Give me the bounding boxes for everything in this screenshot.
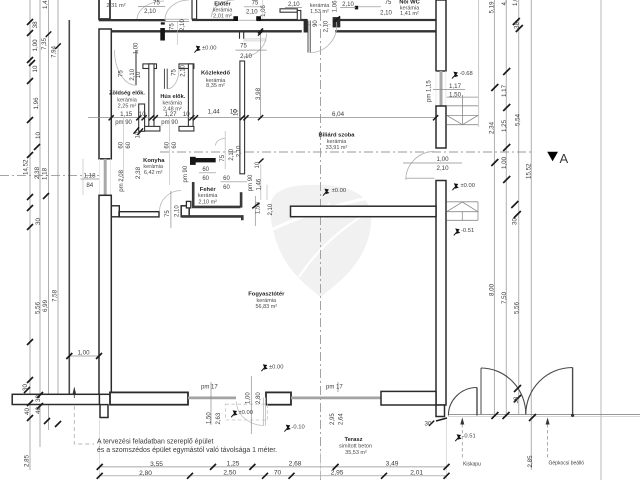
fehér room south wall	[192, 206, 240, 209]
wing south wall under fehér	[182, 216, 242, 220]
door arc NW into neighbour gap	[165, 0, 189, 20]
zöldség door leaf	[135, 50, 137, 85]
flag ±0.00 biliard	[323, 189, 329, 196]
door arc corridor east	[244, 34, 267, 57]
main door threshold dashes	[308, 24, 332, 26]
room label konyha	[143, 158, 165, 176]
svg-text:1,50: 1,50	[207, 412, 213, 424]
east wall segment 2	[436, 106, 446, 148]
svg-text:3,55: 3,55	[150, 461, 163, 468]
south wall band east	[381, 391, 436, 405]
gate right arc	[526, 368, 573, 415]
svg-text:6,42 m²: 6,42 m²	[144, 170, 163, 176]
svg-text:pm 1,15: pm 1,15	[426, 80, 432, 102]
main door left jamb	[304, 19, 308, 33]
svg-text:2,50: 2,50	[223, 470, 236, 477]
svg-text:1,06: 1,06	[333, 0, 339, 12]
east window dim lines	[433, 89, 465, 91]
svg-text:-0.10: -0.10	[292, 424, 305, 430]
svg-text:10: 10	[183, 111, 190, 118]
svg-text:60: 60	[126, 141, 132, 148]
room label shower	[310, 3, 331, 15]
chain2 ticks	[97, 473, 450, 479]
south window 2	[291, 396, 381, 399]
svg-text:-0.51: -0.51	[461, 228, 474, 234]
flag ±0.00 above south wall	[261, 364, 267, 371]
passage ext line 1	[260, 164, 262, 200]
door arc neighbour room	[137, 1, 164, 19]
svg-text:Fehér: Fehér	[200, 187, 217, 193]
section marker A	[547, 152, 558, 161]
svg-text:10: 10	[32, 65, 39, 72]
flag ±0.00 corridor	[194, 46, 200, 53]
svg-text:Fogyasztótér: Fogyasztótér	[248, 291, 285, 297]
svg-text:14,52: 14,52	[23, 159, 30, 175]
main door leaf	[308, 21, 310, 53]
wall band A segment 2	[257, 19, 308, 21]
hús room left wall	[149, 64, 154, 130]
svg-text:15,52: 15,52	[526, 163, 533, 179]
wall band B (y29) segment 1	[106, 30, 302, 32]
svg-text:1,00: 1,00	[32, 39, 39, 52]
flag -0.51 kiskapu	[455, 434, 461, 441]
wall WC jamb	[297, 11, 301, 21]
hús room bottom left	[143, 126, 160, 131]
kitchen door dim vertical	[170, 191, 172, 228]
gate right leaf	[572, 368, 574, 415]
wall band A (y19) segment 1	[192, 19, 234, 21]
right dimension line 1	[493, 0, 495, 415]
flag -0.51 stairs	[454, 228, 460, 235]
zöldség door arc	[114, 50, 136, 85]
svg-text:30: 30	[425, 421, 432, 428]
corridor dim line	[88, 117, 436, 119]
svg-text:75: 75	[385, 0, 392, 6]
svg-text:60: 60	[202, 176, 209, 182]
svg-text:1,25: 1,25	[227, 461, 240, 468]
right dimension line 3	[518, 0, 520, 415]
chain extension x100	[99, 420, 101, 479]
door arc Elotér	[212, 0, 235, 17]
fence band west	[12, 394, 99, 404]
svg-text:2,68: 2,68	[289, 461, 302, 468]
door leaf east biliard	[406, 177, 435, 179]
svg-text:simított beton: simított beton	[339, 444, 372, 450]
east wall segment 1	[436, 0, 446, 71]
svg-text:10: 10	[139, 111, 146, 118]
stairs upper	[447, 95, 478, 125]
svg-text:Terasz: Terasz	[345, 437, 363, 443]
room label fehér	[198, 187, 219, 205]
west wall upper	[99, 29, 111, 159]
svg-text:84: 84	[86, 182, 93, 189]
svg-text:2,25 m²: 2,25 m²	[118, 103, 137, 109]
terrace edge extension line	[478, 0, 480, 127]
svg-text:75: 75	[170, 23, 176, 30]
svg-text:2,10: 2,10	[268, 203, 274, 215]
east wall foot	[436, 405, 445, 417]
hús room top wall left	[143, 64, 157, 69]
svg-text:4,6: 4,6	[501, 0, 508, 6]
fehér door dim line	[224, 131, 226, 169]
svg-text:2,34: 2,34	[489, 121, 496, 134]
door jamb Elotér left	[233, 16, 238, 21]
svg-text:Előtér: Előtér	[214, 1, 231, 7]
svg-text:1,18: 1,18	[83, 172, 96, 179]
kitchen door corner piece	[186, 201, 190, 208]
main door right jamb	[333, 17, 341, 27]
right margin rotated labels	[489, 0, 535, 468]
door dim top-left	[144, 1, 160, 16]
extension line NW door	[177, 22, 179, 46]
extension line elotér door	[262, 0, 264, 19]
svg-text:70: 70	[274, 470, 282, 477]
svg-text:Hús elők.: Hús elők.	[160, 94, 185, 100]
svg-text:-0.51: -0.51	[463, 434, 476, 440]
svg-text:3,98: 3,98	[255, 87, 262, 100]
svg-text:6,99: 6,99	[42, 299, 49, 312]
svg-text:75: 75	[153, 1, 160, 7]
gate left arc	[481, 368, 526, 414]
svg-text:8,00: 8,00	[489, 283, 496, 296]
svg-text:és a szomszédos épület egymást: és a szomszédos épület egymástól való tá…	[97, 447, 277, 454]
door arc east biliard	[406, 152, 435, 181]
kiskapu gate leaf	[476, 388, 478, 416]
wall Elotér west	[192, 0, 197, 19]
svg-text:1,17: 1,17	[501, 84, 508, 97]
svg-text:kerámia: kerámia	[257, 298, 278, 304]
door dim elotér	[246, 1, 259, 16]
door threshold NW	[166, 18, 190, 20]
svg-text:2,80: 2,80	[256, 392, 262, 404]
fehér room west wall	[192, 182, 195, 207]
west wall lower	[99, 195, 111, 394]
corridor dim ticks	[109, 115, 439, 120]
door threshold Elotér	[238, 19, 256, 21]
svg-text:2,10: 2,10	[144, 9, 156, 15]
svg-text:1,06: 1,06	[261, 5, 267, 17]
door dim nöi wc	[380, 0, 392, 17]
south door leaf	[263, 398, 265, 426]
svg-text:60: 60	[223, 176, 230, 182]
east wall segment 3	[436, 181, 446, 406]
left dimension line 2	[39, 0, 41, 447]
svg-text:38: 38	[514, 396, 520, 403]
svg-text:±0.00: ±0.00	[332, 188, 346, 194]
gate pivot dot	[571, 414, 574, 417]
svg-text:10: 10	[136, 71, 142, 78]
pm17 dim left	[210, 382, 212, 425]
svg-text:60: 60	[119, 141, 125, 148]
left dimension line 4	[57, 0, 59, 394]
svg-text:7,35: 7,35	[41, 37, 48, 50]
svg-text:±0.00: ±0.00	[269, 364, 283, 370]
wall stub left of corridor door	[160, 28, 165, 41]
svg-text:1,00: 1,00	[437, 156, 450, 163]
tick main door	[334, 16, 341, 22]
chain1 ticks	[97, 464, 450, 470]
svg-text:2,10: 2,10	[174, 205, 180, 217]
south wall pillar 2	[266, 392, 291, 404]
zöldség east wall	[139, 104, 145, 131]
svg-text:56,83 m²: 56,83 m²	[255, 304, 277, 310]
svg-text:3,49: 3,49	[386, 461, 399, 468]
svg-text:75: 75	[220, 154, 226, 161]
svg-text:pm 90: pm 90	[161, 120, 178, 126]
svg-text:2,80: 2,80	[139, 470, 152, 477]
svg-text:2,10: 2,10	[380, 11, 392, 17]
hús room top wall right	[179, 64, 194, 69]
svg-text:2,10: 2,10	[288, 2, 300, 8]
svg-text:1,50: 1,50	[449, 91, 462, 98]
room label hús	[160, 94, 185, 112]
svg-text:5,54: 5,54	[515, 113, 522, 126]
svg-text:Biliárd szoba: Biliárd szoba	[318, 133, 355, 139]
svg-text:-0.68: -0.68	[460, 71, 473, 77]
section line horizontal right	[160, 151, 532, 153]
svg-text:7,50: 7,50	[501, 291, 508, 304]
svg-text:75: 75	[171, 68, 177, 75]
fehér room east wall	[240, 192, 243, 207]
bottom chain labels	[150, 461, 399, 468]
svg-text:2,10: 2,10	[437, 165, 450, 172]
south door dashed opening	[226, 404, 268, 420]
svg-text:1,00: 1,00	[134, 42, 140, 54]
svg-text:kerámia: kerámia	[198, 193, 219, 199]
right dimension line 4	[530, 0, 532, 470]
svg-text:60: 60	[165, 141, 171, 148]
svg-text:2,10: 2,10	[323, 20, 329, 32]
hús room right wall	[188, 64, 193, 130]
left dimension line 3	[48, 0, 50, 430]
pm17 dim right	[337, 382, 339, 392]
biliard west wall upper	[240, 61, 245, 174]
svg-text:1,53 m²: 1,53 m²	[310, 9, 329, 15]
passage dim line	[254, 196, 256, 226]
south door arc	[237, 402, 265, 426]
section line horizontal left	[0, 175, 99, 177]
svg-text:2,64: 2,64	[339, 413, 345, 425]
door pocket jamb x240	[240, 33, 244, 39]
svg-text:60: 60	[202, 167, 209, 173]
south door vertical line	[250, 376, 252, 434]
svg-text:1,4: 1,4	[42, 0, 49, 9]
right margin ticks	[491, 18, 536, 421]
svg-text:A: A	[560, 151, 569, 166]
svg-text:60: 60	[223, 185, 230, 191]
kitchen south door arc	[160, 191, 182, 212]
svg-text:1,27: 1,27	[164, 111, 177, 118]
svg-text:7,58: 7,58	[52, 289, 59, 302]
svg-text:30: 30	[22, 384, 29, 391]
wall neighbour-block west	[99, 0, 110, 19]
counter T wall	[190, 157, 196, 165]
svg-text:6,04: 6,04	[332, 111, 345, 118]
svg-text:1,00: 1,00	[246, 392, 252, 404]
chain extension x446	[446, 420, 448, 479]
svg-text:5,56: 5,56	[35, 301, 42, 314]
corridor vertical dim 3,98	[260, 33, 262, 118]
svg-text:Kiskapu: Kiskapu	[463, 462, 481, 468]
svg-text:38: 38	[514, 22, 521, 29]
svg-text:2,95: 2,95	[331, 470, 344, 477]
east door dim line	[403, 162, 462, 164]
svg-text:5,56: 5,56	[514, 301, 521, 314]
leader arrow up	[72, 387, 76, 395]
30 tick at south-east wall	[429, 418, 447, 426]
kiskapu gate arc	[448, 388, 477, 416]
svg-text:2,10: 2,10	[237, 145, 243, 157]
room label nöi wc	[399, 0, 420, 17]
left margin rotated labels	[22, 0, 59, 467]
svg-text:10: 10	[233, 109, 239, 116]
svg-text:±0.00: ±0.00	[461, 183, 475, 189]
extra chain ticks left	[46, 31, 61, 49]
biliard south wall	[291, 206, 437, 217]
svg-text:1,46: 1,46	[257, 178, 263, 190]
dashed leader kiskapu -0.51	[461, 424, 463, 460]
gate left leaf	[480, 368, 482, 414]
svg-text:33,91 m²: 33,91 m²	[326, 145, 348, 151]
svg-text:2,38: 2,38	[34, 166, 41, 179]
wall band A segment 3	[340, 19, 446, 21]
west wall south stub	[100, 405, 108, 418]
svg-text:pm 90: pm 90	[248, 174, 254, 191]
svg-text:1,00: 1,00	[501, 156, 508, 169]
svg-text:2,63: 2,63	[216, 412, 222, 424]
svg-text:pm 2,08: pm 2,08	[119, 169, 125, 191]
svg-text:2,38: 2,38	[135, 166, 142, 179]
svg-text:2,10: 2,10	[240, 54, 252, 60]
svg-text:2,10: 2,10	[342, 2, 354, 8]
svg-text:1,41 m²: 1,41 m²	[400, 11, 419, 17]
flag -0.68	[452, 72, 458, 79]
svg-text:40: 40	[24, 408, 31, 415]
window dim west line	[82, 159, 84, 196]
room label zöldség	[109, 91, 145, 110]
svg-text:2,10 m²: 2,10 m²	[198, 199, 217, 205]
hús door leaf	[164, 69, 167, 89]
svg-text:10: 10	[35, 132, 42, 139]
svg-text:2,31 m²: 2,31 m²	[106, 3, 125, 9]
svg-text:pm 17: pm 17	[201, 384, 218, 390]
hús room bottom right	[179, 126, 194, 131]
door threshold NéWC	[358, 6, 381, 8]
wall neighbour-block south / band A left	[99, 19, 166, 21]
svg-text:30: 30	[512, 218, 519, 225]
svg-text:7,94: 7,94	[51, 45, 58, 58]
svg-text:Gépkocsi beálló: Gépkocsi beálló	[549, 461, 585, 467]
wall band B segment 3	[335, 30, 436, 32]
room label biliárd	[318, 133, 355, 152]
svg-text:75: 75	[252, 1, 259, 7]
left margin ticks	[24, 19, 61, 427]
chain extension x320	[320, 452, 322, 479]
svg-text:75: 75	[119, 70, 125, 77]
bottom dim chain 2 line	[100, 475, 447, 477]
wall stub NW door jamb	[161, 22, 165, 24]
main door arc	[310, 22, 337, 53]
stairs lower	[447, 202, 478, 221]
svg-text:2,85: 2,85	[527, 455, 534, 468]
svg-text:90: 90	[313, 20, 319, 27]
extension pm90 line 2	[168, 118, 170, 185]
svg-text:35,53 m²: 35,53 m²	[345, 450, 367, 456]
svg-text:1,0: 1,0	[512, 0, 519, 6]
svg-text:pm 17: pm 17	[326, 384, 343, 390]
room label terasz	[339, 437, 372, 456]
door jamb Elotér right	[256, 16, 261, 21]
flag -0.10	[284, 425, 290, 432]
svg-text:1,00: 1,00	[77, 350, 90, 357]
watermark logo	[269, 185, 371, 298]
svg-text:1,17: 1,17	[449, 83, 462, 90]
svg-text:kerámia: kerámia	[327, 139, 348, 145]
svg-text:1,96: 1,96	[33, 97, 40, 110]
extension pm90 line 1	[122, 118, 124, 181]
door leaf corridor east	[244, 39, 266, 41]
left 1,00 dim near bottom	[69, 355, 99, 357]
svg-text:8,35 m²: 8,35 m²	[206, 83, 225, 89]
section line vertical	[320, 12, 322, 480]
svg-text:2,01 m²: 2,01 m²	[213, 13, 232, 19]
svg-text:1,44: 1,44	[208, 108, 221, 115]
svg-text:38: 38	[32, 21, 39, 28]
flag ±0.00 stairs	[452, 183, 458, 190]
svg-text:2,10: 2,10	[246, 9, 258, 15]
svg-text:5,19: 5,19	[489, 1, 496, 14]
svg-text:2,95: 2,95	[330, 413, 336, 425]
passage ext line 2	[266, 185, 268, 200]
svg-text:1,25: 1,25	[501, 119, 508, 132]
boundary line neighbour	[68, 20, 70, 394]
south wall band west of door	[110, 392, 188, 404]
svg-text:75: 75	[165, 210, 171, 217]
svg-text:1,18: 1,18	[42, 167, 49, 180]
room label közlekedő	[201, 71, 230, 90]
flag ±0.00 south door	[231, 410, 237, 417]
svg-text:±0.00: ±0.00	[239, 410, 253, 416]
svg-text:2,10: 2,10	[180, 19, 186, 31]
bottom dim chain 1 line	[100, 466, 447, 468]
svg-text:40: 40	[35, 407, 42, 414]
svg-text:2,01: 2,01	[410, 470, 423, 477]
svg-text:Zöldség elők.: Zöldség elők.	[109, 91, 145, 97]
svg-text:Közlekedő: Közlekedő	[201, 71, 230, 77]
south window 1	[188, 396, 236, 399]
svg-text:±0.00: ±0.00	[202, 45, 216, 51]
svg-text:2,10: 2,10	[130, 68, 136, 80]
west wall window glazing	[104, 159, 107, 196]
east wall window glazing	[440, 71, 443, 107]
svg-text:30: 30	[35, 218, 42, 225]
svg-text:pm 90: pm 90	[183, 165, 189, 182]
corridor bottom dim labels	[120, 108, 344, 118]
svg-text:2,10: 2,10	[180, 64, 186, 76]
front fence line	[448, 413, 640, 415]
svg-text:2,85: 2,85	[24, 454, 31, 467]
dashed leader annotation	[74, 406, 94, 444]
hús door arc	[167, 69, 179, 89]
svg-text:1,15: 1,15	[120, 111, 133, 118]
fehér door arc	[216, 139, 226, 146]
left dimension line 1	[29, 0, 31, 470]
room label fogyasztótér	[248, 291, 285, 310]
dashed leader gépkocsi	[547, 424, 549, 458]
svg-text:60: 60	[172, 141, 178, 148]
door dim corridor east	[240, 43, 252, 60]
tick on band B	[258, 28, 263, 33]
